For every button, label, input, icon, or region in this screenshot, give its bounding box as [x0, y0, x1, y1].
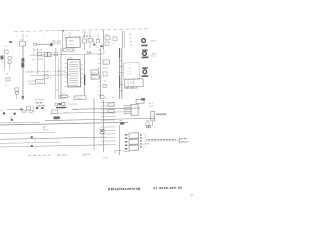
- node junction E: [31, 145, 33, 147]
- svg-text:a4: a4: [0, 110, 2, 112]
- rail tick y72: [118, 71, 123, 73]
- svg-text:10n: 10n: [5, 73, 8, 75]
- capacitor C220: [55, 103, 58, 106]
- value label above M203: [142, 67, 148, 69]
- capacitor C207: [54, 52, 58, 55]
- svg-text:4u: 4u: [4, 84, 6, 86]
- resistor R201: [8, 57, 11, 60]
- svg-text:22n: 22n: [112, 97, 115, 99]
- svg-text:1k5: 1k5: [49, 77, 52, 79]
- svg-text:x 12 n: x 12 n: [69, 44, 74, 46]
- wire dash bottom: [123, 150, 130, 152]
- svg-text:2: 2: [12, 49, 13, 51]
- wire vertical net N4: [60, 48, 62, 99]
- connector pin rungs lower: [100, 127, 115, 145]
- terminal dot 1: [3, 112, 5, 114]
- wire vertical net N1: [102, 30, 105, 50]
- wire bus top dashed: [14, 29, 150, 32]
- rail tick y90: [118, 89, 123, 91]
- wire K201 stem up: [22, 33, 24, 41]
- capacitor C205: [52, 41, 55, 44]
- test point TP2: [86, 36, 87, 37]
- svg-text:(m W: (m W: [44, 130, 49, 132]
- wire arrow to node: [7, 108, 20, 110]
- wire tick net: [33, 106, 35, 112]
- resistor R231: [74, 96, 86, 100]
- svg-text:a: a: [16, 36, 17, 38]
- wire signal arrow: [36, 43, 50, 45]
- value label under M203: [142, 75, 149, 77]
- X2 rung 3: [151, 118, 155, 120]
- motor M203 symbol: [143, 70, 147, 74]
- svg-text:m 204: m 204: [103, 157, 108, 159]
- wire rail r3: [0, 142, 60, 143]
- wire main vertical left: [22, 46, 24, 100]
- wire vertical net N6: [84, 55, 86, 95]
- svg-text:n 2: n 2: [102, 57, 104, 59]
- svg-text:= 12: = 12: [127, 73, 131, 75]
- test point TP5: [89, 52, 91, 54]
- svg-text:= 4TL: = 4TL: [64, 112, 69, 114]
- wire net N3 vertical: [37, 48, 38, 75]
- svg-text:0,1u 4n: 0,1u 4n: [37, 104, 45, 107]
- resistor R209: [69, 49, 73, 52]
- capacitor C201: [5, 50, 9, 54]
- wire vertical net N7: [100, 48, 102, 99]
- svg-text:1k: 1k: [95, 47, 97, 49]
- capacitor C229: [149, 125, 151, 128]
- wire corner mark: [115, 150, 122, 153]
- wire vertical stub left of U201: [61, 32, 64, 52]
- svg-text:0 10 4TL 10: 0 10 4TL 10: [59, 98, 69, 100]
- relay K201 coil: [19, 41, 25, 46]
- IC U202 right pin numbers: [82, 65, 84, 85]
- wire coil row end: [177, 139, 180, 141]
- label dark mid: [120, 122, 124, 125]
- capacitor C204: [82, 39, 86, 43]
- label dark equals: [53, 116, 59, 119]
- switch S203: [108, 109, 114, 112]
- resistor R206 below U201: [63, 49, 67, 52]
- wire supply rail b: [121, 48, 123, 99]
- node junction A: [93, 44, 95, 46]
- resistor R240: [22, 110, 26, 112]
- svg-text:Ablaufsteuerung: Ablaufsteuerung: [108, 187, 141, 192]
- svg-text:7,5: 7,5: [55, 90, 58, 92]
- IC U206: [131, 104, 138, 115]
- connector X2: [151, 111, 155, 121]
- IC U201: [66, 37, 80, 47]
- resistor R204: [34, 43, 37, 45]
- node junction top bus: [62, 30, 64, 32]
- svg-text:S201 4049 1/2: S201 4049 1/2: [124, 87, 138, 90]
- svg-text:1,2k: 1,2k: [143, 147, 146, 149]
- svg-text:22k: 22k: [32, 59, 35, 61]
- rectifier GR201 a: [44, 52, 48, 56]
- svg-text:6k8: 6k8: [105, 34, 108, 36]
- wire curve connector: [43, 126, 45, 129]
- inductor L201: [37, 52, 41, 56]
- wire bus row4 long: [0, 122, 128, 125]
- terminal dot 2: [13, 112, 15, 114]
- svg-text:10n: 10n: [103, 81, 106, 83]
- resistor R230: [60, 95, 68, 97]
- svg-text:470: 470: [37, 82, 40, 84]
- wire rail r1: [0, 132, 55, 133]
- svg-text:P.FRONT.: P.FRONT.: [156, 113, 167, 116]
- X2 rung 2: [151, 115, 155, 117]
- svg-text:5: 5: [83, 74, 84, 76]
- node ticks column N2: [129, 34, 131, 46]
- resistor R202: [8, 61, 11, 63]
- svg-text:7: 7: [83, 83, 84, 85]
- svg-text:n2: n2: [105, 97, 107, 99]
- label dark beside D220: [58, 103, 61, 105]
- IC U207: [136, 99, 144, 103]
- wire X2 lead: [151, 121, 153, 126]
- IC U202 pin rungs: [69, 62, 79, 85]
- diode D220: [62, 102, 66, 105]
- diode D224 dark: [36, 107, 38, 109]
- svg-text:4,7: 4,7: [102, 51, 105, 53]
- svg-text:47k 1%: 47k 1%: [76, 98, 82, 100]
- svg-text:k1: k1: [34, 139, 36, 141]
- diode D222: [51, 110, 57, 114]
- U205 internal divider 2: [133, 79, 135, 87]
- IC U203: [103, 60, 109, 64]
- wire vertical net N2a: [121, 31, 124, 48]
- wire rail r2: [0, 137, 105, 139]
- rail tick y66: [118, 65, 123, 67]
- resistor R213: [44, 75, 48, 79]
- label dark row under D220: [56, 107, 66, 109]
- motor M202 symbol: [143, 52, 147, 56]
- resistor R225: [103, 72, 107, 76]
- arrowhead left: [20, 109, 23, 111]
- wire ladder spine: [103, 100, 105, 152]
- svg-text:MOT 1: MOT 1: [151, 40, 157, 42]
- svg-text:57 9506-960-05: 57 9506-960-05: [153, 186, 182, 191]
- relay K203: [129, 133, 139, 138]
- relay K205: [129, 145, 139, 150]
- wire stub x90 up: [89, 31, 91, 36]
- svg-text:o o: o o: [86, 49, 88, 51]
- test point TP1: [83, 36, 84, 37]
- rectifier GR201 b: [48, 52, 51, 56]
- node junction D: [31, 136, 33, 138]
- wire tick R207: [92, 38, 94, 44]
- terminal dot 3: [11, 119, 13, 121]
- wire vertical net N5: [55, 48, 57, 99]
- diode D225 dark: [41, 107, 44, 109]
- svg-text:b2: b2: [26, 35, 28, 37]
- svg-text:= 10: = 10: [127, 67, 131, 69]
- svg-text:X1-: X1-: [4, 46, 7, 48]
- wire branch left: [3, 55, 6, 70]
- connector pin rungs upper: [100, 102, 115, 120]
- svg-text:7: 7: [83, 46, 84, 48]
- wire tick R208: [97, 36, 99, 40]
- wire vertical net N2b: [123, 31, 126, 48]
- capacitor C221: [26, 107, 30, 110]
- resistor R470: [36, 80, 45, 84]
- lamp H201: [15, 91, 18, 94]
- svg-text:z.Band: z.Band: [150, 55, 155, 57]
- wire U201 output: [73, 48, 75, 54]
- svg-text:=10 4n: =10 4n: [35, 101, 43, 104]
- wire bus row1: [72, 108, 140, 109]
- svg-text:3: 3: [64, 35, 65, 37]
- svg-text:6: 6: [83, 78, 84, 80]
- wire vertical net N5b: [57, 58, 59, 99]
- label dark U207: [141, 98, 145, 100]
- value label above M202: [142, 49, 148, 51]
- value label under M202: [142, 56, 149, 58]
- wire vertical net mid: [43, 58, 46, 78]
- wire horizontal rail y55: [30, 54, 105, 56]
- wire C204 top lead: [83, 31, 85, 36]
- resistor R226: [103, 84, 106, 87]
- wire bus row5 short: [0, 121, 40, 124]
- resistor R207: [88, 38, 92, 42]
- terminal rows right: [140, 134, 146, 148]
- capacitor C206: [57, 41, 60, 44]
- capacitor C224: [146, 121, 149, 127]
- net N7 pin ticks: [97, 50, 102, 95]
- svg-text:4049: 4049: [129, 82, 133, 84]
- svg-text:a1: a1: [1, 61, 3, 63]
- test point TP4: [87, 52, 89, 54]
- U205 internal divider: [127, 79, 129, 87]
- svg-text:A 70 10 n 4: A 70 10 n 4: [68, 103, 78, 106]
- svg-text:0,47: 0,47: [62, 93, 65, 95]
- transistor Q202 body: [21, 62, 24, 67]
- coil row L202 loops: [146, 139, 175, 142]
- wire supply rail a heavy mid: [118, 75, 121, 88]
- wire vertical net N8: [93, 98, 95, 150]
- svg-text:IC 7: IC 7: [66, 34, 69, 36]
- IC U205: [125, 79, 143, 87]
- IC U204 outline: [123, 63, 139, 80]
- wire net N6 heavy segment: [83, 74, 85, 85]
- svg-text:10k: 10k: [38, 49, 41, 51]
- svg-text:2,2k: 2,2k: [92, 77, 96, 79]
- value label under M201: [141, 45, 147, 47]
- IC U202 right pin ticks: [80, 64, 84, 82]
- wire rail r4: [0, 145, 105, 147]
- wire stub x70 up: [69, 32, 71, 37]
- wire dashed row left: [28, 154, 50, 157]
- svg-text:1,2k: 1,2k: [143, 138, 146, 140]
- terminal mark left top: [9, 41, 12, 43]
- node solder junction B: [21, 58, 24, 62]
- node terminal end left rail: [21, 96, 24, 99]
- capacitor C228: [146, 125, 148, 128]
- capacitor C218: [100, 95, 104, 98]
- diode D215: [113, 37, 117, 41]
- wire H201 lead: [16, 95, 18, 100]
- capacitor C210: [105, 42, 109, 46]
- svg-text:4: 4: [44, 35, 45, 37]
- resistor R241: [29, 110, 32, 112]
- svg-text:3: 3: [83, 65, 84, 67]
- svg-text:k2: k2: [35, 148, 37, 150]
- capacitor C226: [100, 129, 104, 133]
- svg-text:B.CPU 4-7: B.CPU 4-7: [179, 140, 190, 143]
- connector pin pads column: [125, 134, 128, 150]
- resistor network R221: [91, 75, 99, 79]
- rail tick y60: [118, 59, 123, 61]
- transistor Q201 body: [0, 55, 3, 59]
- svg-text:40 %: 40 %: [145, 143, 150, 145]
- IC U202 counter: [67, 59, 80, 87]
- rail tick y84: [118, 83, 123, 85]
- svg-text:1,2k: 1,2k: [143, 135, 146, 137]
- arrowhead signal: [50, 43, 53, 46]
- wire vertical net N9: [119, 125, 120, 155]
- wire R202 lead down: [8, 63, 10, 70]
- svg-text:o4n 10n 4o: o4n 10n 4o: [35, 99, 45, 101]
- motor M201 symbol: [142, 39, 146, 43]
- svg-text:] 1: ] 1: [153, 127, 155, 129]
- wire C204 lead: [83, 43, 85, 50]
- svg-text:n 7: n 7: [56, 50, 59, 52]
- svg-text:4: 4: [83, 69, 84, 71]
- resistor R210: [105, 36, 110, 40]
- wire bus row3: [45, 118, 155, 120]
- wire R207 lead: [89, 42, 91, 48]
- svg-text:5,0n 4k7: 5,0n 4k7: [179, 137, 188, 140]
- X2 rung 1: [151, 113, 155, 115]
- switch S202: [108, 103, 114, 106]
- svg-text:D201: D201: [68, 58, 73, 60]
- svg-text:1,2k: 1,2k: [143, 141, 146, 143]
- svg-text:AB CPU 1: AB CPU 1: [57, 154, 68, 157]
- wire supply rail a: [119, 48, 121, 99]
- label net N1: [100, 45, 103, 47]
- wire net N3b dashed: [33, 48, 35, 56]
- svg-text:= 11: = 11: [127, 70, 131, 72]
- svg-text:BC547: BC547: [103, 68, 109, 70]
- svg-text:2,98 5,6: 2,98 5,6: [82, 154, 91, 156]
- svg-text:u2: u2: [60, 120, 62, 122]
- signal arrows bundle: [123, 106, 131, 114]
- capacitor C211: [6, 78, 10, 81]
- resistor R208: [97, 39, 100, 42]
- IC U202 left pin ticks: [64, 63, 68, 86]
- wire tick mid: [120, 119, 123, 122]
- relay K204: [129, 139, 139, 144]
- resistor network R220: [91, 70, 99, 74]
- svg-text:9: 9: [92, 36, 93, 38]
- wire supply rail a heavy top: [118, 48, 120, 58]
- svg-text:n4: n4: [68, 96, 70, 98]
- node C226 dark: [101, 130, 103, 132]
- test point TP3: [89, 36, 90, 37]
- svg-text:4,7k: 4,7k: [92, 72, 96, 74]
- wire horizontal rail y75: [30, 74, 70, 77]
- capacitor C209: [15, 88, 19, 91]
- wire bus row2: [50, 112, 130, 114]
